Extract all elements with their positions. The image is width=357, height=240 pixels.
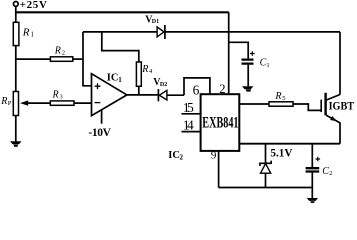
resistor R1 <box>13 22 19 45</box>
svg-text:5: 5 <box>282 95 285 102</box>
wire pin 3 to R5 <box>239 103 269 105</box>
pin 15 stub <box>182 113 201 115</box>
ground under C2 <box>307 198 318 203</box>
svg-text:9: 9 <box>211 150 217 162</box>
svg-text:D2: D2 <box>160 82 167 88</box>
wire C2 top <box>311 144 313 168</box>
wire terminal to R1 <box>15 7 17 23</box>
diode VD1 <box>157 27 164 37</box>
svg-text:IC: IC <box>107 72 119 83</box>
right rail down to collector <box>339 32 341 95</box>
svg-text:R: R <box>22 26 30 38</box>
svg-text:3: 3 <box>60 94 63 101</box>
wire wiper to R3 <box>27 102 50 104</box>
wire VD1 line left <box>83 31 157 33</box>
wire +25V rail down to pin 2 <box>228 12 230 94</box>
svg-text:EXB841: EXB841 <box>202 114 238 131</box>
pin 9 wire <box>218 151 220 188</box>
resistor R2 <box>50 57 72 62</box>
svg-text:2: 2 <box>62 49 65 56</box>
svg-text:+25V: +25V <box>20 0 47 11</box>
wire R5 to gate <box>293 104 321 110</box>
IGBT emitter arrow <box>330 116 337 121</box>
IGBT emitter <box>326 115 340 144</box>
emitter line <box>239 143 340 145</box>
svg-text:R: R <box>54 45 61 56</box>
op-amp IC1 <box>92 74 127 116</box>
capacitor C1 <box>242 60 254 64</box>
terminal +25V <box>13 2 18 7</box>
svg-text:1: 1 <box>118 76 122 84</box>
resistor R5 <box>269 102 293 106</box>
svg-text:1: 1 <box>31 31 35 39</box>
wire R1 to Rp1 <box>15 46 17 92</box>
zener diode 5.1V <box>260 161 271 166</box>
ground under Rp1 <box>10 141 21 147</box>
svg-text:2: 2 <box>180 154 184 162</box>
svg-text:R: R <box>0 96 7 107</box>
svg-text:2: 2 <box>219 82 225 96</box>
wire zener to bus <box>265 173 267 187</box>
wire C1 to ground <box>247 65 249 87</box>
plus sign in op-amp <box>95 83 101 89</box>
pin 14 stub <box>182 131 201 133</box>
svg-text:2: 2 <box>329 170 332 177</box>
svg-text:5.1V: 5.1V <box>270 147 293 159</box>
svg-text:15: 15 <box>183 100 194 115</box>
svg-text:R: R <box>52 90 59 101</box>
svg-text:IGBT: IGBT <box>329 101 355 113</box>
wire R2 to +input column <box>73 58 83 60</box>
top +25V rail <box>15 11 229 13</box>
wire VD1 to right rail <box>165 31 340 33</box>
wire R4 top feedback <box>102 32 139 62</box>
minus sign in op-amp <box>95 102 101 104</box>
plus sign C2 <box>316 157 321 162</box>
svg-text:14: 14 <box>183 118 194 133</box>
wire C1 branch <box>229 42 249 58</box>
wire R4 bottom lead <box>138 86 140 95</box>
IC EXB841 <box>201 94 240 151</box>
wiper arrow of Rp1 <box>20 100 28 105</box>
wire VD2 to pin 6 loop <box>167 94 184 96</box>
-10V supply stub <box>101 110 103 124</box>
wire op-amp output <box>127 94 158 96</box>
plus sign C1 <box>250 51 255 56</box>
svg-text:R: R <box>141 64 148 75</box>
svg-text:D1: D1 <box>152 19 159 25</box>
svg-text:-10V: -10V <box>88 127 111 139</box>
wire R3 to -input <box>74 102 92 104</box>
potentiometer Rp1 <box>13 92 18 116</box>
svg-text:6: 6 <box>193 83 200 98</box>
svg-text:R: R <box>274 91 281 102</box>
IGBT body bar <box>324 93 326 115</box>
bottom bus <box>219 187 313 189</box>
wire zener top <box>265 144 267 164</box>
wire Rp1 to ground <box>15 116 17 142</box>
svg-text:1: 1 <box>266 62 269 69</box>
wire node A to R2 <box>16 58 51 60</box>
ground under C1 <box>242 86 253 91</box>
diode VD2 <box>157 89 159 101</box>
capacitor C2 <box>306 168 320 171</box>
resistor R3 <box>50 101 74 105</box>
IGBT collector <box>327 95 341 101</box>
resistor R4 <box>136 62 141 86</box>
svg-text:IC: IC <box>168 150 180 161</box>
wire +input column <box>83 32 92 86</box>
wire C2 to ground <box>311 173 313 199</box>
IGBT gate bar <box>320 100 322 113</box>
svg-text:P1: P1 <box>8 100 15 107</box>
wire pin 6 loop <box>184 78 210 95</box>
